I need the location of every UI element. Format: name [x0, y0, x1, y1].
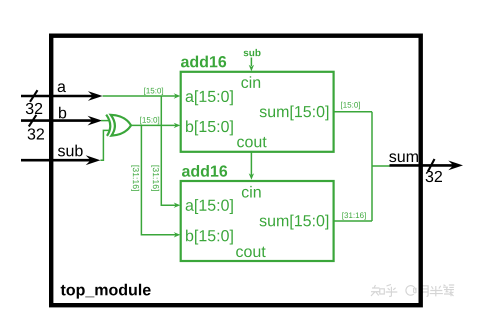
pin cin (add16#1): [241, 76, 260, 88]
wire a (input bus): [21, 95, 93, 98]
label a: [58, 83, 66, 92]
label b: [59, 107, 66, 119]
pin cout (add16#1): [237, 137, 266, 148]
label add16 (instance 1): [181, 56, 226, 68]
wire sub to XOR lower input: [100, 130, 110, 160]
outer module box top_module: [51, 36, 421, 306]
module box add16 #2: [181, 181, 334, 261]
XOR gate body: [111, 115, 131, 136]
wire sum merge vertical: [371, 112, 373, 221]
wire a branch down to add16#2 a[15:0]: [161, 96, 177, 205]
label [15:0] on a wire: [144, 88, 163, 95]
pin b[15:0] (add16#2): [186, 230, 233, 245]
XOR gate input arc: [106, 115, 110, 136]
net label sub above add16#1: [244, 49, 261, 56]
wire XOR branch down to add16#2 b[15:0]: [141, 125, 177, 234]
pin sum[15:0] (add16#2): [260, 215, 329, 230]
label [31:16] rotated (a branch): [151, 166, 159, 191]
pin a[15:0] (add16#1): [186, 90, 233, 105]
arrowhead into a[15:0] of add16#1: [174, 93, 181, 98]
wire cout of add16#1 to cin of add16#2: [250, 152, 252, 175]
label top_module: [61, 284, 151, 299]
bus slash sum: [428, 159, 435, 172]
label sum: [389, 153, 418, 162]
pin a[15:0] (add16#2): [186, 199, 233, 214]
wire b (input bus): [21, 119, 93, 122]
pin cin (add16#2): [242, 186, 261, 198]
arrowhead into cin of add16#2: [249, 173, 254, 180]
label [31:16] on sum wire: [342, 212, 365, 219]
wire sub net to cin of add16#1: [250, 58, 252, 67]
pin b[15:0] (add16#1): [186, 120, 233, 135]
arrowhead sub: [86, 155, 101, 165]
arrowhead into cin of add16#1: [249, 65, 254, 72]
label [31:16] rotated (b branch): [131, 166, 139, 191]
arrowhead into a[15:0] of add16#2: [174, 203, 181, 208]
label 32 (sum): [426, 171, 442, 182]
wire sum[31:16] from add16#2: [334, 220, 372, 222]
pin cout (add16#2): [236, 247, 265, 258]
bus slash a: [30, 90, 38, 102]
label [15:0] on XOR output: [140, 117, 159, 124]
label sub: [58, 145, 83, 157]
wire XOR output to add16#1 b[15:0]: [131, 124, 178, 126]
arrowhead into b[15:0] of add16#1: [174, 123, 181, 128]
module box add16 #1: [181, 72, 334, 152]
bus slash b: [29, 115, 37, 127]
wire sub (input): [21, 159, 91, 162]
label 32 (a): [26, 103, 42, 114]
wire a to add16#1 a[15:0]: [103, 95, 177, 97]
wire sum output: [390, 164, 454, 167]
arrowhead into b[15:0] of add16#2: [174, 232, 181, 237]
wire b stub into XOR upper input: [101, 120, 110, 122]
pin sum[15:0] (add16#1): [260, 106, 329, 121]
label add16 (instance 2): [182, 165, 227, 177]
label [15:0] on sum wire: [341, 102, 360, 109]
label 32 (b): [28, 128, 44, 139]
wire sum tap to output: [372, 165, 390, 167]
arrowhead b: [88, 116, 103, 126]
arrowhead a: [88, 91, 103, 101]
arrowhead sum: [448, 161, 463, 171]
wire sum[15:0] from add16#1: [334, 111, 372, 113]
watermark zhihu @yuebanzhen: [371, 284, 454, 296]
